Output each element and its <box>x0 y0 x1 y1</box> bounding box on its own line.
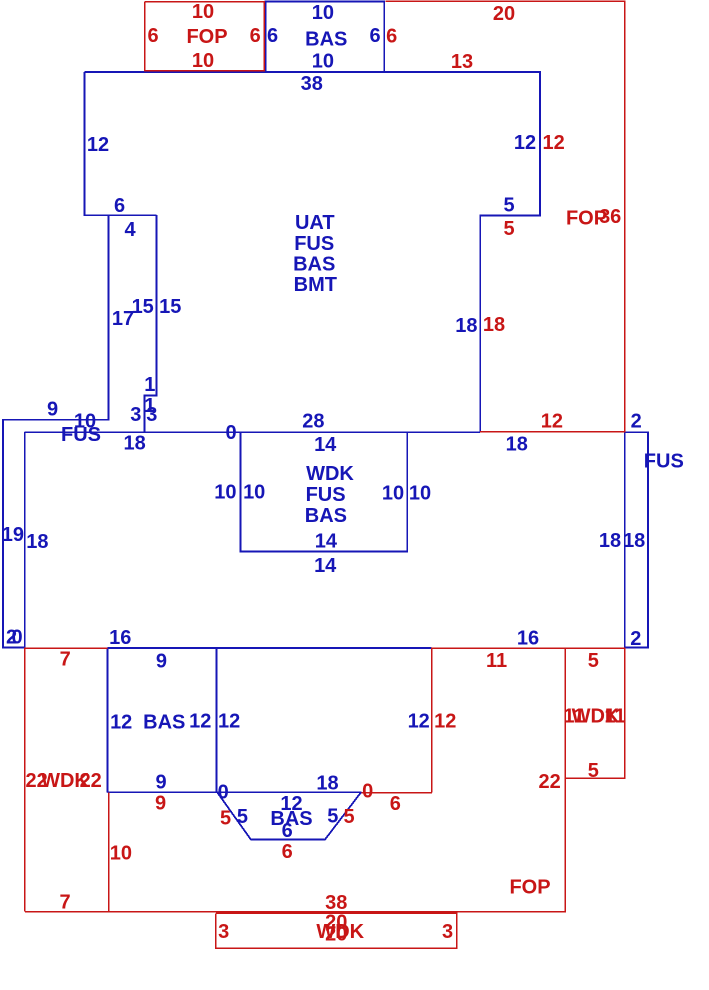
svg-text:9: 9 <box>155 772 166 794</box>
svg-text:9: 9 <box>47 399 58 421</box>
svg-text:5: 5 <box>588 760 599 782</box>
svg-text:UAT: UAT <box>295 212 335 234</box>
svg-text:20: 20 <box>325 924 347 946</box>
svg-text:FUS: FUS <box>644 451 684 473</box>
svg-text:18: 18 <box>26 531 48 553</box>
svg-text:6: 6 <box>147 25 158 47</box>
svg-text:7: 7 <box>59 891 70 913</box>
svg-text:18: 18 <box>506 434 528 456</box>
svg-text:16: 16 <box>109 627 131 649</box>
svg-text:5: 5 <box>237 806 248 828</box>
svg-text:12: 12 <box>87 134 109 156</box>
svg-text:12: 12 <box>408 710 430 732</box>
svg-text:12: 12 <box>189 710 211 732</box>
svg-text:2: 2 <box>630 628 641 650</box>
svg-text:18: 18 <box>599 530 621 552</box>
svg-text:5: 5 <box>327 805 338 827</box>
svg-text:10: 10 <box>192 50 214 72</box>
svg-text:0: 0 <box>362 780 373 802</box>
svg-text:3: 3 <box>130 404 141 426</box>
svg-text:9: 9 <box>156 651 167 673</box>
svg-text:7: 7 <box>60 649 71 671</box>
svg-text:6: 6 <box>114 195 125 217</box>
svg-text:15: 15 <box>159 296 181 318</box>
svg-text:3: 3 <box>218 921 229 943</box>
svg-text:FUS: FUS <box>306 484 346 506</box>
svg-text:12: 12 <box>541 411 563 433</box>
svg-text:14: 14 <box>314 555 337 577</box>
svg-text:11: 11 <box>604 706 625 728</box>
svg-text:36: 36 <box>599 206 621 228</box>
svg-text:14: 14 <box>315 531 338 553</box>
svg-text:6: 6 <box>250 25 261 47</box>
svg-text:28: 28 <box>302 410 324 432</box>
svg-text:18: 18 <box>623 530 645 552</box>
svg-text:BAS: BAS <box>305 29 347 51</box>
svg-text:5: 5 <box>588 650 599 672</box>
svg-text:6: 6 <box>386 25 397 47</box>
svg-text:0: 0 <box>11 626 22 648</box>
svg-text:2: 2 <box>631 410 642 432</box>
svg-text:5: 5 <box>503 218 514 240</box>
svg-text:WDK: WDK <box>306 463 354 485</box>
svg-text:38: 38 <box>301 73 323 95</box>
svg-text:BMT: BMT <box>294 274 337 296</box>
svg-text:14: 14 <box>314 434 337 456</box>
svg-text:22: 22 <box>538 771 560 793</box>
svg-text:1: 1 <box>144 374 155 396</box>
svg-text:16: 16 <box>517 627 539 649</box>
svg-text:0: 0 <box>218 782 229 804</box>
svg-text:10: 10 <box>214 481 236 503</box>
svg-text:10: 10 <box>243 481 265 503</box>
svg-text:18: 18 <box>316 773 338 795</box>
svg-text:9: 9 <box>155 793 166 815</box>
svg-text:13: 13 <box>451 51 473 73</box>
svg-text:FOP: FOP <box>186 26 227 48</box>
svg-text:22: 22 <box>80 770 102 792</box>
svg-text:BAS: BAS <box>143 712 185 734</box>
svg-text:12: 12 <box>514 132 536 154</box>
svg-text:3: 3 <box>442 921 453 943</box>
svg-text:10: 10 <box>409 483 431 505</box>
svg-text:10: 10 <box>110 843 132 865</box>
svg-text:5: 5 <box>503 195 514 217</box>
svg-text:4: 4 <box>124 219 136 241</box>
svg-text:5: 5 <box>220 807 231 829</box>
svg-text:6: 6 <box>282 820 293 842</box>
svg-text:12: 12 <box>434 710 456 732</box>
svg-text:18: 18 <box>455 315 477 337</box>
svg-text:6: 6 <box>390 793 401 815</box>
svg-text:10: 10 <box>312 2 334 24</box>
svg-text:FUS: FUS <box>294 233 334 255</box>
svg-text:BAS: BAS <box>305 505 347 527</box>
svg-text:3: 3 <box>146 404 157 426</box>
svg-text:10: 10 <box>312 50 334 72</box>
svg-text:19: 19 <box>2 524 24 546</box>
svg-text:12: 12 <box>542 132 564 154</box>
svg-text:12: 12 <box>110 712 132 734</box>
svg-text:15: 15 <box>132 296 154 318</box>
svg-text:FOP: FOP <box>509 876 550 898</box>
svg-text:38: 38 <box>325 892 347 914</box>
svg-text:12: 12 <box>218 710 240 732</box>
svg-text:6: 6 <box>369 25 380 47</box>
svg-text:BAS: BAS <box>293 254 335 276</box>
svg-text:11: 11 <box>486 650 507 672</box>
svg-text:10: 10 <box>382 483 404 505</box>
svg-text:5: 5 <box>344 806 355 828</box>
svg-text:18: 18 <box>123 432 145 454</box>
svg-text:0: 0 <box>226 422 237 444</box>
svg-text:6: 6 <box>267 25 278 47</box>
svg-text:18: 18 <box>483 314 505 336</box>
svg-text:20: 20 <box>493 3 515 25</box>
svg-text:10: 10 <box>192 1 214 23</box>
svg-text:FUS: FUS <box>61 424 101 446</box>
svg-text:6: 6 <box>282 841 293 863</box>
